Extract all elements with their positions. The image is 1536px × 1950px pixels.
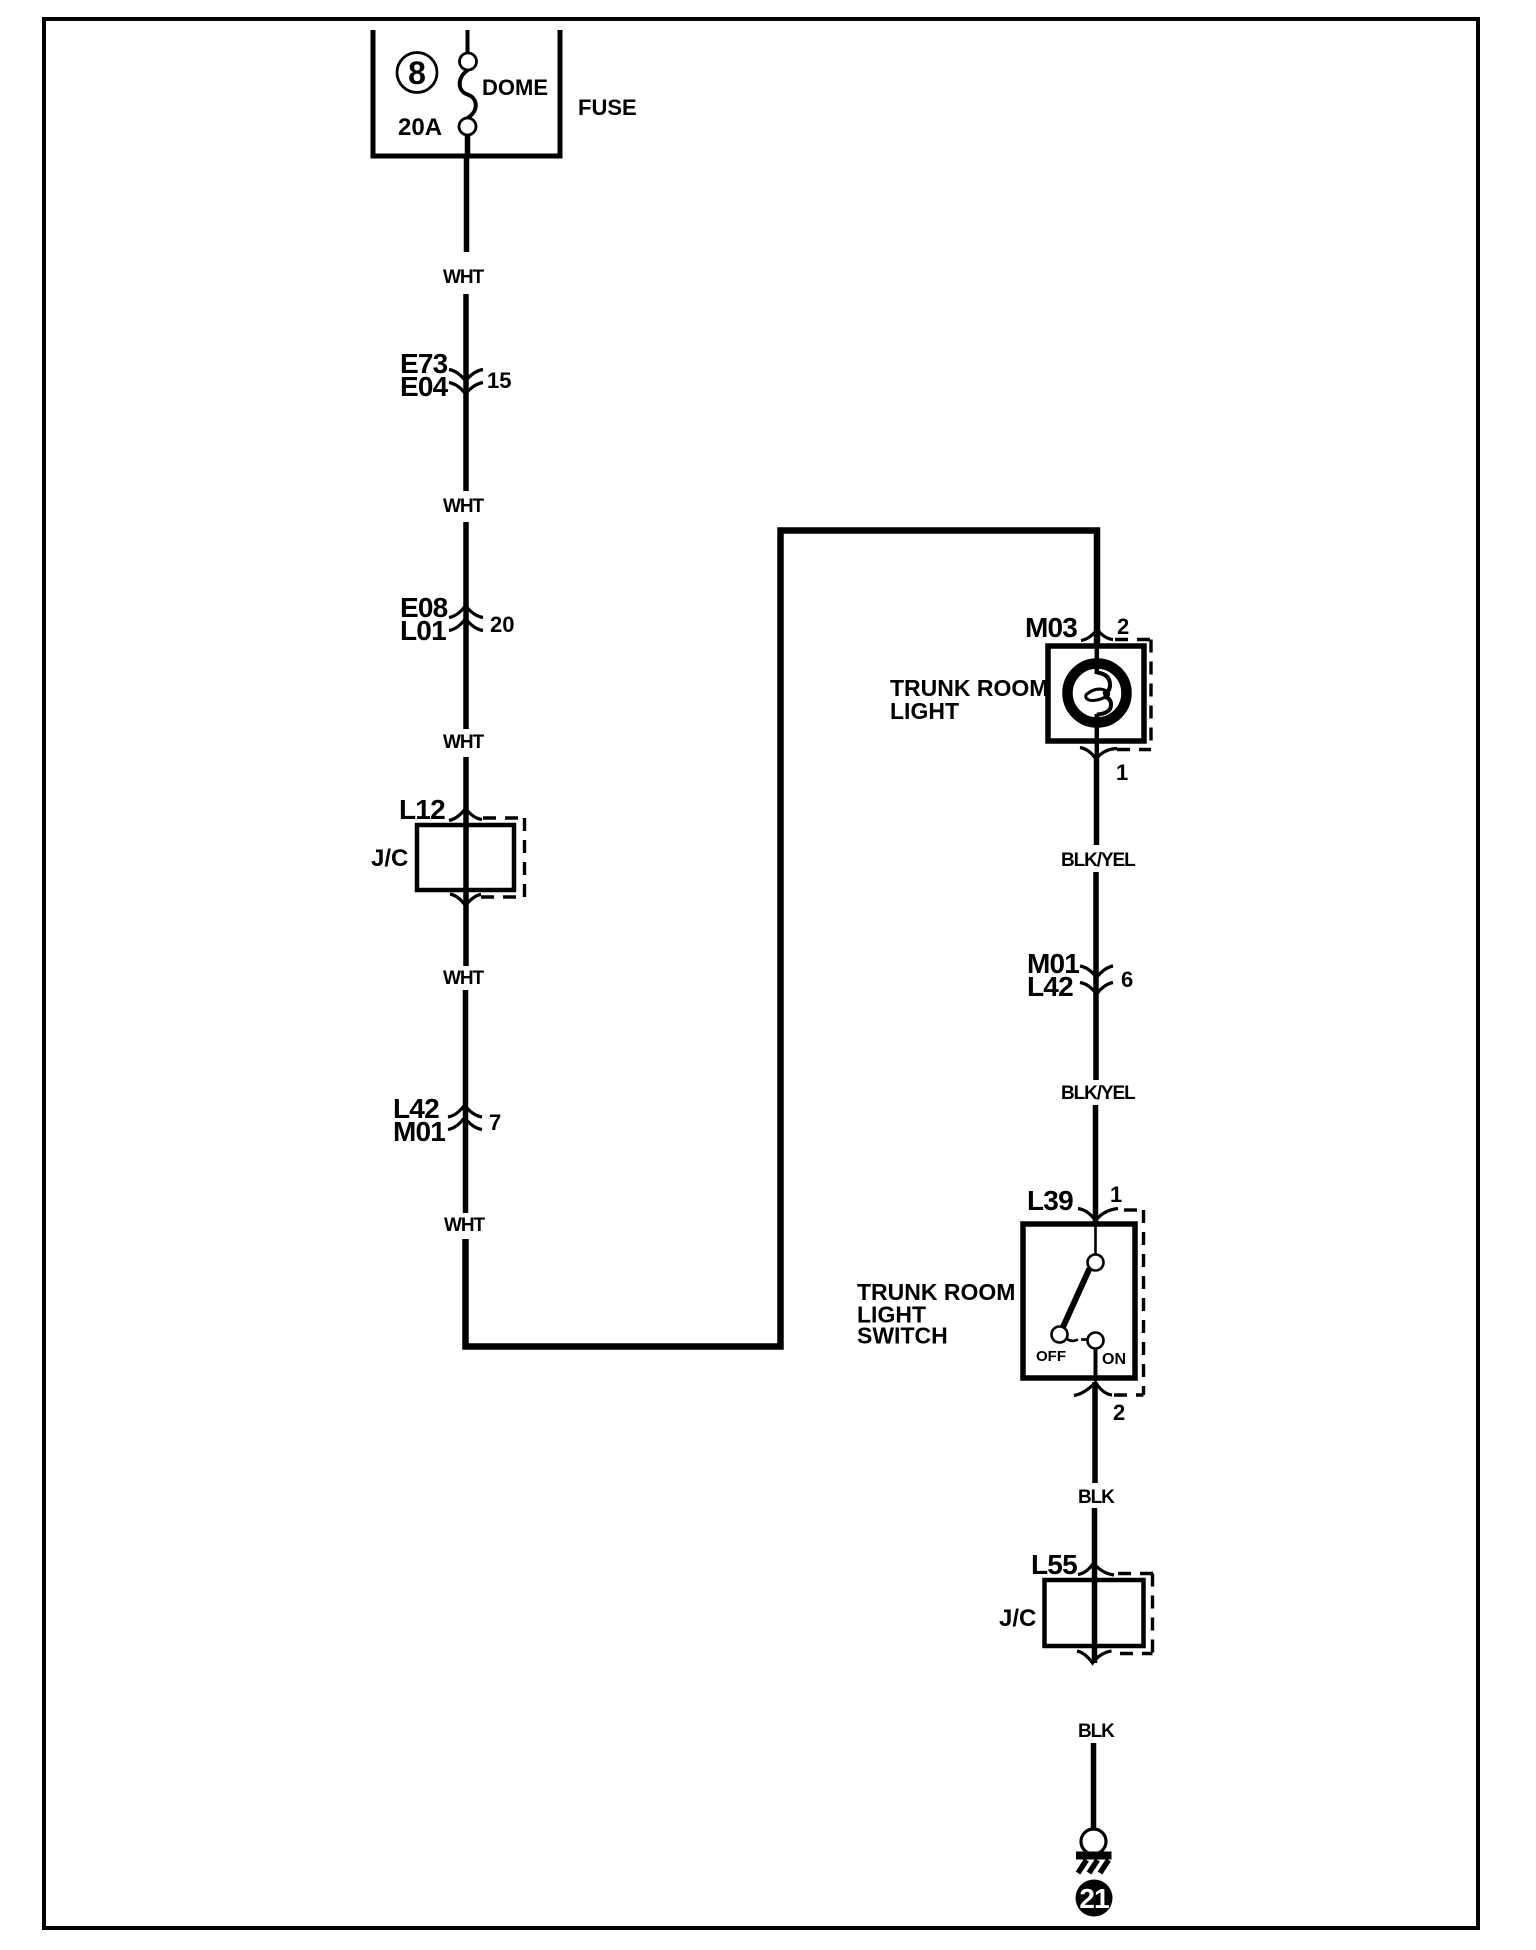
svg-text:SWITCH: SWITCH (857, 1323, 948, 1349)
wire WHT fuse to E73 (464, 158, 470, 252)
junction connector L55 J/C (999, 1549, 1154, 1663)
svg-text:7: 7 (489, 1110, 501, 1135)
svg-text:WHT: WHT (444, 1215, 485, 1236)
svg-text:WHT: WHT (443, 496, 484, 517)
svg-text:L39: L39 (1027, 1185, 1073, 1216)
wire BLK section (1092, 1382, 1098, 1483)
junction connector L12 J/C (371, 794, 525, 906)
svg-text:2: 2 (1117, 614, 1129, 639)
wire L12 section (463, 757, 469, 966)
wire L39 section (1093, 1105, 1099, 1223)
connector E08/L01 pin 20 (400, 592, 514, 646)
trunk room light bulb M03 (1048, 646, 1144, 758)
svg-text:L12: L12 (399, 794, 445, 825)
trunk room light switch L39 pin 1 top (1027, 1182, 1146, 1395)
svg-text:20: 20 (490, 612, 514, 637)
svg-text:21: 21 (1079, 1883, 1109, 1914)
svg-text:J/C: J/C (371, 845, 408, 872)
svg-text:15: 15 (487, 368, 511, 393)
svg-text:J/C: J/C (999, 1605, 1036, 1632)
trunk room light M03 pin 2 top (1025, 612, 1152, 750)
connector L42/M01 pin 7 (393, 1093, 501, 1147)
svg-text:FUSE: FUSE (578, 95, 637, 120)
svg-text:ON: ON (1102, 1351, 1126, 1368)
svg-text:WHT: WHT (443, 968, 484, 989)
L39 pin 2 bottom chevron (1074, 1383, 1125, 1426)
wire to ground (1091, 1743, 1097, 1830)
svg-text:WHT: WHT (443, 732, 484, 753)
svg-text:OFF: OFF (1036, 1348, 1066, 1365)
svg-text:BLK/YEL: BLK/YEL (1061, 1083, 1136, 1104)
svg-text:L01: L01 (400, 615, 446, 646)
svg-text:1: 1 (1116, 760, 1128, 785)
svg-text:LIGHT: LIGHT (890, 698, 959, 724)
wire E73 section (463, 294, 469, 491)
wire jog from L42 up to trunk room light (466, 531, 1098, 1347)
svg-text:20A: 20A (398, 114, 442, 141)
svg-text:6: 6 (1121, 967, 1133, 992)
M03 pin 1 bottom chevron (1080, 748, 1128, 786)
ground (1076, 1829, 1112, 1873)
svg-text:DOME: DOME (482, 75, 548, 100)
svg-text:WHT: WHT (443, 267, 484, 288)
svg-text:8: 8 (408, 55, 426, 91)
svg-text:L55: L55 (1031, 1549, 1077, 1580)
svg-text:M01: M01 (393, 1116, 445, 1147)
connector E73/E04 pin 15 (400, 348, 511, 402)
svg-text:L42: L42 (1027, 971, 1073, 1002)
svg-text:2: 2 (1113, 1400, 1125, 1425)
ground reference 21 (1076, 1880, 1113, 1917)
wire L55 section (1092, 1508, 1098, 1663)
svg-text:E04: E04 (400, 371, 449, 402)
wire E08 section (463, 522, 469, 729)
svg-text:M03: M03 (1025, 612, 1077, 643)
svg-text:BLK/YEL: BLK/YEL (1061, 850, 1136, 871)
fuse 8 DOME 20A (371, 30, 563, 158)
wire M01 section (1093, 872, 1099, 1080)
svg-text:BLK: BLK (1078, 1487, 1115, 1508)
connector M01/L42 pin 6 (1027, 948, 1133, 1002)
svg-text:BLK: BLK (1078, 1721, 1115, 1742)
svg-text:1: 1 (1110, 1182, 1122, 1207)
wire L42 section (463, 990, 469, 1213)
wire BLK/YEL section (1094, 758, 1100, 845)
trunk room light switch L39 (1023, 1224, 1135, 1381)
